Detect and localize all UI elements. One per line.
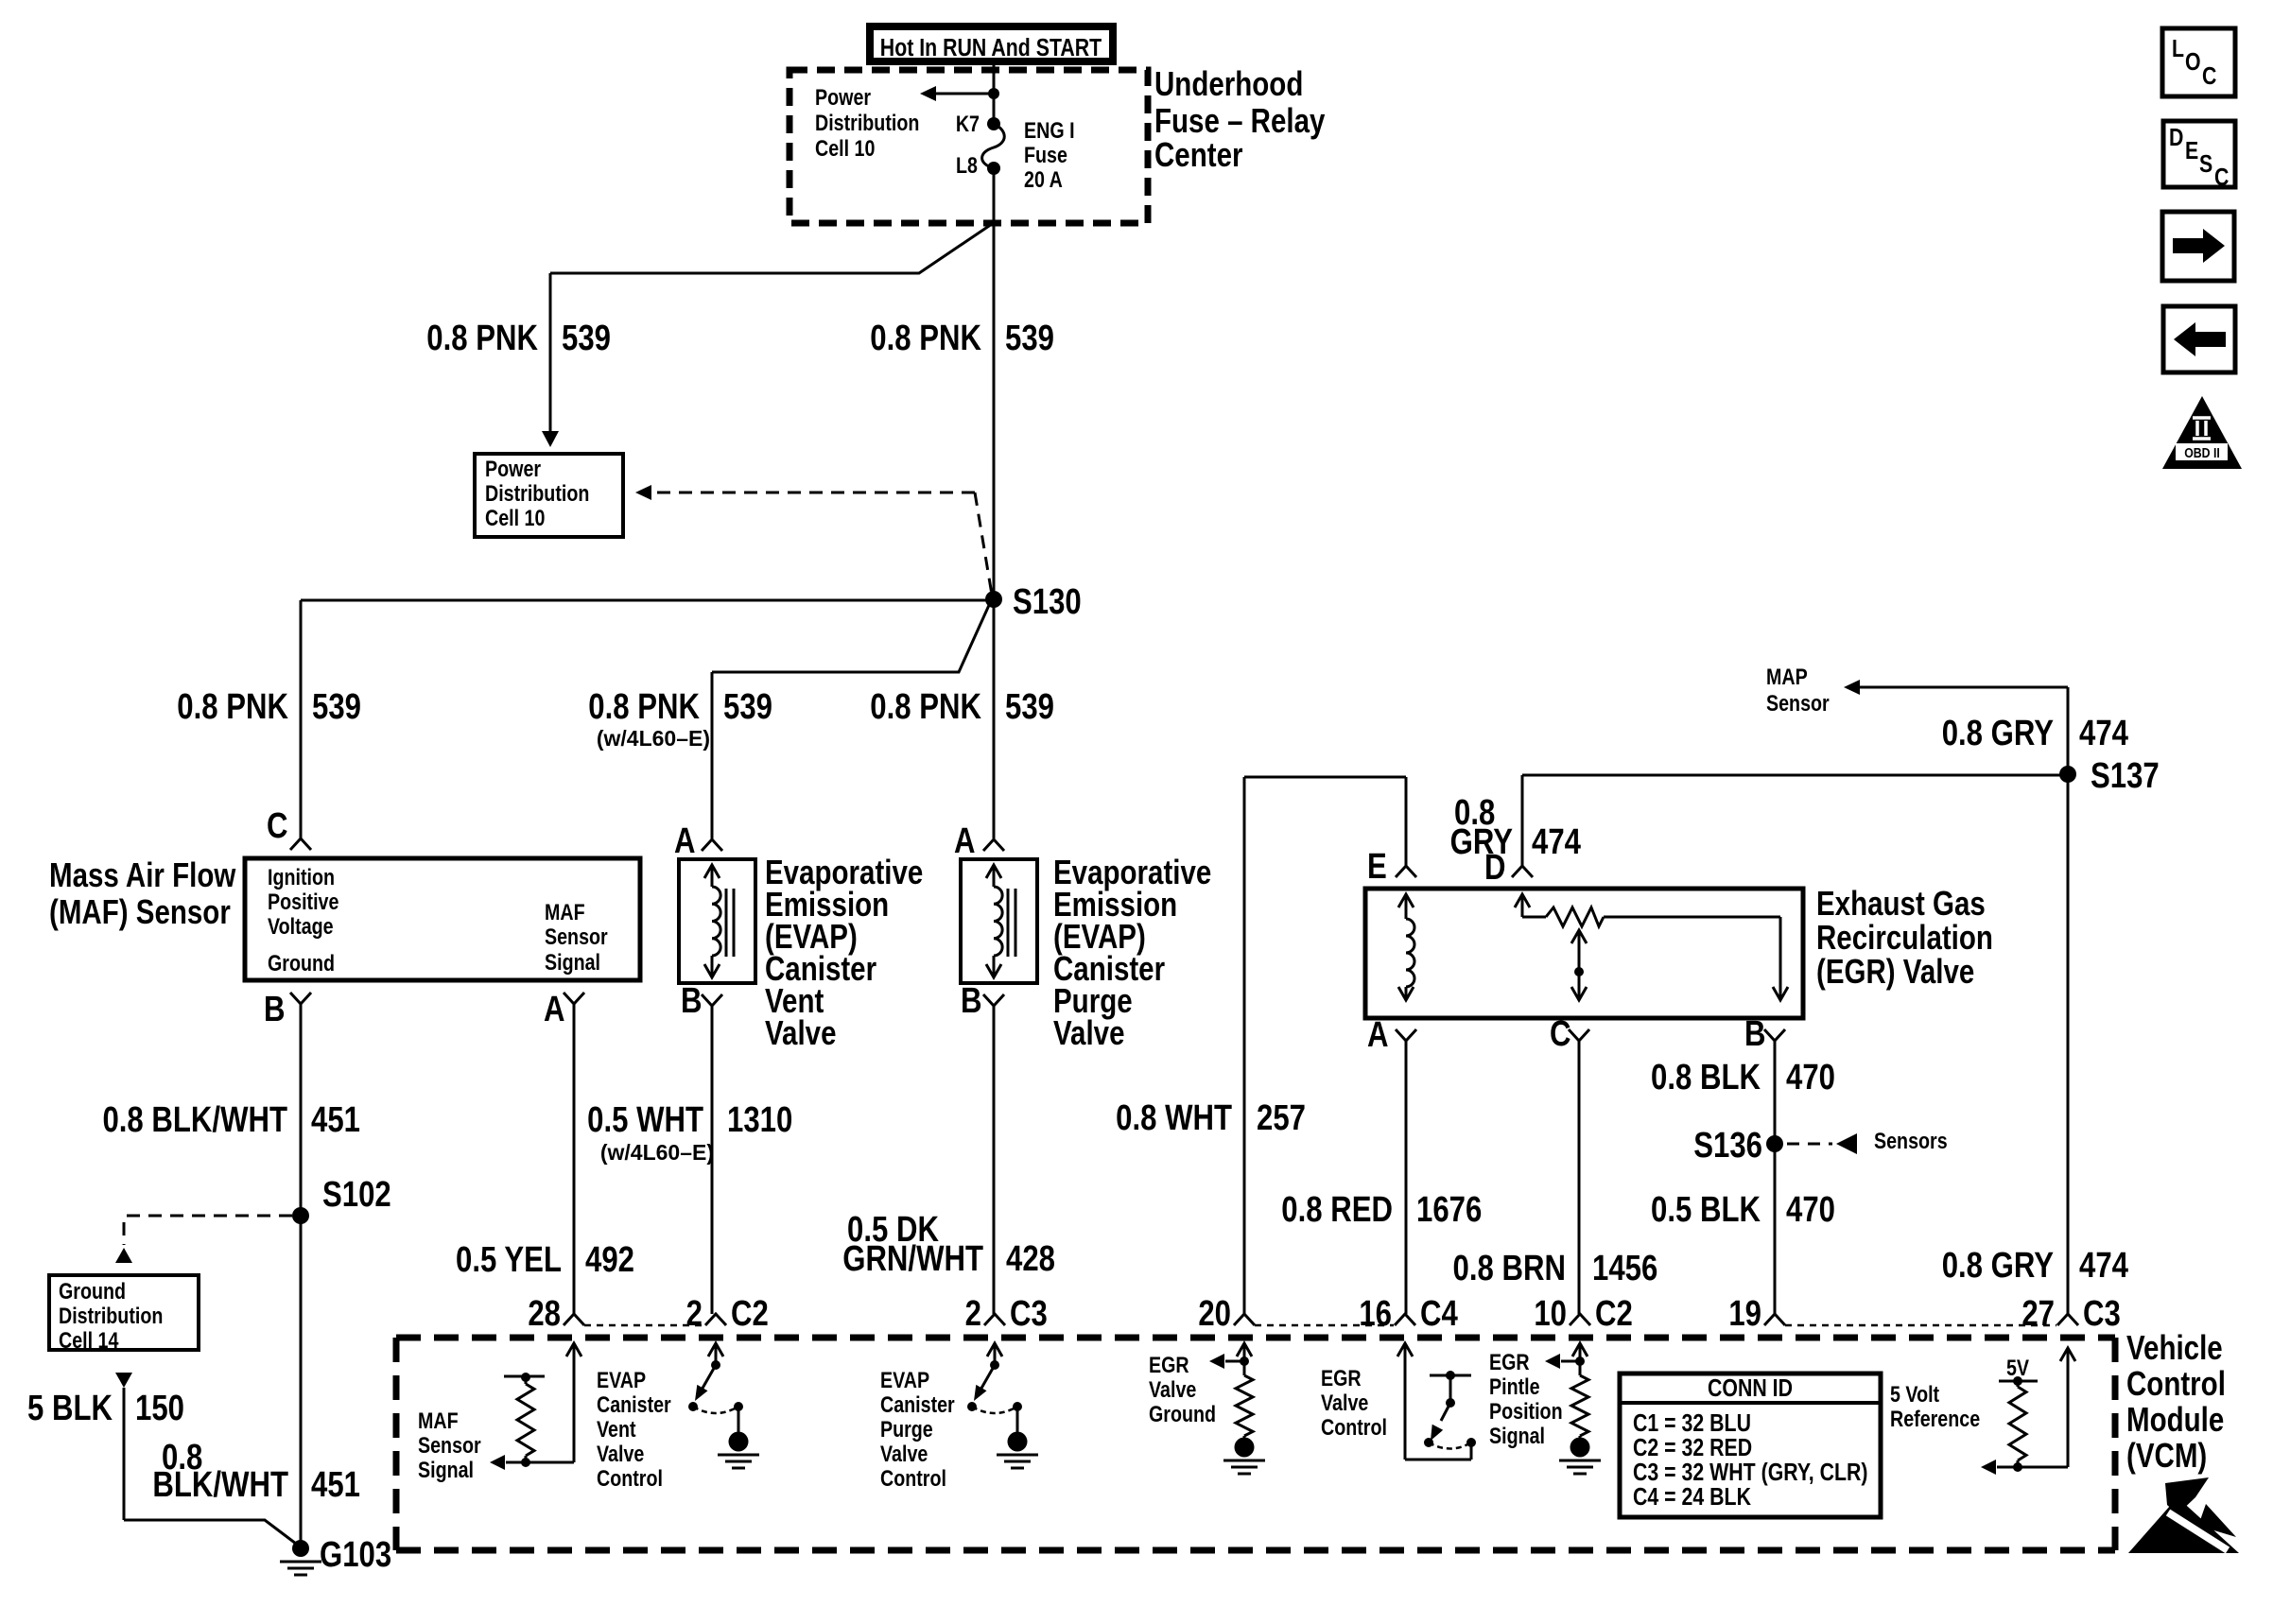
pin E label — [1367, 847, 1387, 887]
svg-text:2: 2 — [686, 1294, 703, 1334]
svg-text:A: A — [544, 990, 565, 1029]
label wire 0.8 PNK 539 (vent) — [588, 687, 772, 751]
svg-text:E: E — [2185, 137, 2198, 165]
svg-text:470: 470 — [1786, 1190, 1835, 1230]
label wire 0.5 WHT 1310 — [587, 1100, 792, 1165]
svg-text:Sensor: Sensor — [1766, 690, 1830, 716]
node G103 ground — [280, 1535, 391, 1575]
VCM internal dashed bus 28-2 — [584, 1324, 704, 1327]
label wire 0.8 BLK/WHT 451 — [102, 1100, 360, 1140]
svg-text:EVAP: EVAP — [597, 1367, 646, 1392]
svg-text:Recirculation: Recirculation — [1816, 918, 1993, 956]
label wire 0.8 PNK 539 (purge) — [870, 687, 1054, 727]
svg-text:2: 2 — [965, 1294, 981, 1334]
svg-text:Exhaust Gas: Exhaust Gas — [1816, 884, 1986, 922]
node S102 — [292, 1175, 391, 1224]
label Underhood Fuse - Relay Center — [1154, 64, 1326, 173]
label Evaporative Emission (EVAP) Canister Vent Valve — [765, 853, 923, 1051]
svg-text:Sensors: Sensors — [1874, 1128, 1948, 1153]
dashed reference arrow to Power Distribution box — [635, 485, 992, 595]
wire S130 to purge valve — [993, 600, 996, 838]
svg-text:5 BLK: 5 BLK — [27, 1389, 113, 1428]
wire diagonal branch below fuse box — [550, 224, 992, 273]
svg-text:EGR: EGR — [1149, 1352, 1189, 1377]
svg-text:474: 474 — [2079, 1246, 2129, 1286]
svg-text:L: L — [2172, 35, 2184, 63]
svg-text:150: 150 — [135, 1389, 184, 1428]
label MAP Sensor — [1766, 664, 1830, 716]
pin B connector (vent) — [702, 994, 722, 1006]
svg-text:(MAF) Sensor: (MAF) Sensor — [49, 892, 231, 930]
node S137 — [2059, 756, 2160, 796]
svg-text:S136: S136 — [1693, 1126, 1762, 1166]
underhood fuse-relay center dashed box — [789, 70, 1148, 223]
svg-text:C: C — [1550, 1014, 1571, 1054]
fuse ENG I 20A — [982, 117, 1005, 175]
label wire 0.5 DK GRN/WHT 428 — [842, 1210, 1055, 1279]
svg-text:Control: Control — [880, 1465, 946, 1491]
label MAF Sensor Signal (in box) — [545, 899, 608, 975]
svg-text:492: 492 — [585, 1240, 634, 1280]
svg-text:Positive: Positive — [268, 889, 338, 914]
wire vent B down — [711, 1006, 714, 1314]
EGR valve box — [1365, 889, 1803, 1018]
svg-text:S102: S102 — [322, 1175, 391, 1215]
svg-text:Cell 10: Cell 10 — [815, 135, 875, 161]
wire EGR A down — [1405, 1041, 1408, 1314]
label wire 0.8 PNK 539 (left top) — [426, 319, 611, 358]
pin A label (purge) — [954, 821, 976, 861]
icon LOC box — [2162, 28, 2235, 96]
svg-text:1310: 1310 — [727, 1100, 792, 1140]
label wire 0.8 GRY 474 (pin 27) — [1942, 1246, 2129, 1286]
label Ignition Positive Voltage / Ground — [268, 864, 338, 976]
pin B connector — [290, 993, 311, 1004]
VCM internal dashed bus 19-27 — [1785, 1324, 2056, 1327]
svg-text:1676: 1676 — [1416, 1190, 1482, 1230]
pin B connector (EGR) — [1764, 1029, 1785, 1041]
svg-text:539: 539 — [723, 687, 772, 727]
svg-text:MAF: MAF — [545, 899, 585, 924]
svg-text:0.8 PNK: 0.8 PNK — [177, 687, 288, 727]
svg-text:Purge: Purge — [880, 1416, 933, 1442]
pin D label — [1484, 848, 1506, 888]
EGR valve control driver — [1321, 1343, 1476, 1460]
svg-text:A: A — [1367, 1015, 1389, 1055]
wire 257 riser — [1244, 777, 1406, 1314]
svg-text:Valve: Valve — [880, 1441, 928, 1466]
svg-text:20: 20 — [1198, 1294, 1231, 1334]
wire D riser to S137 — [1522, 775, 2068, 866]
label wire 0.8 GRY 474 (at D) — [1450, 793, 1582, 862]
svg-text:451: 451 — [311, 1100, 360, 1140]
icon forward arrow box — [2162, 212, 2234, 281]
svg-text:0.8 PNK: 0.8 PNK — [588, 687, 700, 727]
svg-text:C: C — [2214, 164, 2229, 192]
svg-text:Reference: Reference — [1890, 1406, 1980, 1431]
svg-text:EGR: EGR — [1489, 1349, 1530, 1374]
wire arrow to Power Distribution — [920, 86, 994, 101]
svg-text:451: 451 — [311, 1465, 360, 1505]
svg-text:474: 474 — [1532, 822, 1582, 862]
5 volt reference resistor — [1890, 1348, 2075, 1475]
wire from ground cell down — [115, 1373, 300, 1546]
label wire 0.8 PNK 539 (MAF) — [177, 687, 361, 727]
svg-text:Signal: Signal — [418, 1457, 474, 1482]
svg-text:Sensor: Sensor — [545, 924, 608, 949]
label wire 0.5 BLK 470 — [1651, 1190, 1835, 1230]
svg-text:(VCM): (VCM) — [2126, 1436, 2207, 1474]
wire purge B down — [993, 1006, 996, 1314]
label wire 0.8 RED 1676 — [1281, 1190, 1482, 1230]
svg-text:CONN ID: CONN ID — [1708, 1374, 1793, 1403]
svg-text:GRY: GRY — [1450, 822, 1513, 862]
label wire 0.8 WHT 257 — [1116, 1098, 1306, 1138]
EGR pintle position signal resistor — [1489, 1343, 1601, 1474]
wire main feed from Hot box — [993, 61, 996, 123]
pin A connector — [564, 993, 584, 1004]
svg-text:Ground: Ground — [268, 950, 335, 976]
svg-text:B: B — [264, 990, 286, 1029]
svg-text:Signal: Signal — [545, 949, 600, 975]
svg-text:539: 539 — [1005, 687, 1054, 727]
svg-text:Power: Power — [485, 456, 541, 481]
icon OBD II triangle — [2162, 396, 2242, 469]
svg-text:S137: S137 — [2091, 756, 2160, 796]
svg-text:Canister: Canister — [597, 1391, 671, 1417]
svg-text:0.8 GRY: 0.8 GRY — [1942, 714, 2054, 753]
svg-text:Underhood: Underhood — [1154, 64, 1303, 102]
label wire 0.8 PNK 539 (center top) — [870, 319, 1054, 358]
svg-text:Valve: Valve — [765, 1013, 836, 1051]
svg-text:L8: L8 — [956, 152, 978, 178]
label box Hot In RUN And START — [870, 26, 1113, 62]
svg-text:EVAP: EVAP — [880, 1367, 929, 1392]
label K7 — [956, 111, 980, 136]
ground distribution cell 14 box — [49, 1275, 199, 1353]
VCM pin 20 — [1198, 1294, 1255, 1334]
svg-text:257: 257 — [1257, 1098, 1306, 1138]
svg-text:D: D — [2169, 124, 2183, 152]
EGR valve ground resistor — [1149, 1343, 1265, 1474]
EVAP canister purge valve box — [961, 859, 1037, 983]
label wire 0.8 BLK 470 — [1651, 1058, 1835, 1097]
svg-text:GRN/WHT: GRN/WHT — [842, 1239, 983, 1279]
svg-text:20 A: 20 A — [1024, 166, 1063, 192]
label Power Distribution Cell 10 (underhood) — [815, 84, 919, 161]
svg-text:B: B — [1744, 1014, 1766, 1054]
VCM pin 10 C2 — [1534, 1294, 1632, 1334]
label wire 0.8 GRY 474 (S137) — [1942, 714, 2129, 753]
pin B label — [264, 990, 286, 1029]
pin B label (purge) — [961, 981, 982, 1021]
svg-text:0.5 YEL: 0.5 YEL — [456, 1240, 562, 1280]
pin C label (EGR) — [1550, 1014, 1571, 1054]
pin B label (EGR) — [1744, 1014, 1766, 1054]
EGR pintle wiper — [1571, 930, 1587, 1000]
wire fuse to S130 — [993, 168, 996, 600]
svg-text:0.8 BLK/WHT: 0.8 BLK/WHT — [102, 1100, 287, 1140]
VCM dashed border — [396, 1338, 2115, 1550]
svg-text:539: 539 — [562, 319, 611, 358]
svg-text:Distribution: Distribution — [815, 110, 919, 135]
svg-text:27: 27 — [2021, 1294, 2055, 1334]
label L8 — [956, 152, 978, 178]
dashed sensors reference — [1787, 1128, 1948, 1154]
wire MAF A down — [573, 1004, 576, 1314]
pin C label — [267, 806, 288, 846]
pin A label — [544, 990, 565, 1029]
svg-text:BLK/WHT: BLK/WHT — [152, 1465, 288, 1505]
pin A label (vent) — [674, 821, 696, 861]
svg-text:Cell 14: Cell 14 — [59, 1327, 119, 1353]
svg-text:28: 28 — [528, 1294, 561, 1334]
wire MAF B down — [300, 1004, 303, 1548]
pin B connector (purge) — [983, 994, 1004, 1006]
svg-text:539: 539 — [1005, 319, 1054, 358]
svg-text:C: C — [2202, 62, 2216, 91]
svg-text:B: B — [681, 981, 703, 1021]
VCM pin 2 C3 — [965, 1294, 1048, 1334]
svg-text:Ignition: Ignition — [268, 864, 335, 890]
VCM pin 28 — [528, 1294, 584, 1334]
label wire 0.5 YEL 492 — [456, 1240, 634, 1280]
VCM pin 2 C2 — [686, 1294, 769, 1334]
svg-text:0.8 BRN: 0.8 BRN — [1453, 1249, 1566, 1288]
svg-text:0.8 RED: 0.8 RED — [1281, 1190, 1393, 1230]
wire EGR C down — [1578, 1041, 1581, 1314]
svg-text:K7: K7 — [956, 111, 980, 136]
label Mass Air Flow (MAF) Sensor — [49, 855, 236, 930]
svg-text:Valve: Valve — [597, 1441, 644, 1466]
pin E connector — [1396, 866, 1416, 877]
EGR potentiometer — [1515, 894, 1788, 1000]
svg-text:Control: Control — [1321, 1414, 1387, 1440]
svg-text:ENG I: ENG I — [1024, 117, 1075, 143]
EVAP canister vent valve box — [679, 859, 755, 983]
svg-text:Valve: Valve — [1149, 1376, 1196, 1402]
svg-text:Center: Center — [1154, 135, 1243, 173]
svg-text:O: O — [2185, 48, 2201, 77]
svg-text:A: A — [674, 821, 696, 861]
svg-text:Canister: Canister — [880, 1391, 955, 1417]
label ENG I Fuse 20 A — [1024, 117, 1075, 192]
node S136 — [1693, 1126, 1783, 1166]
svg-text:0.8 PNK: 0.8 PNK — [870, 687, 981, 727]
svg-text:(w/4L60–E): (w/4L60–E) — [597, 726, 710, 751]
svg-text:OBD II: OBD II — [2184, 445, 2220, 460]
purge valve solenoid coil — [986, 865, 1015, 977]
svg-text:Sensor: Sensor — [418, 1432, 481, 1458]
svg-text:Position: Position — [1489, 1398, 1563, 1424]
svg-text:Vehicle: Vehicle — [2126, 1328, 2223, 1366]
pin A connector (purge) — [983, 839, 1004, 851]
label Exhaust Gas Recirculation (EGR) Valve — [1816, 884, 1993, 990]
wire S130 to vent valve branch — [712, 603, 990, 838]
svg-text:0.8 PNK: 0.8 PNK — [870, 319, 981, 358]
svg-text:428: 428 — [1006, 1239, 1055, 1279]
svg-text:474: 474 — [2079, 714, 2129, 753]
svg-text:Module: Module — [2126, 1400, 2224, 1438]
svg-text:470: 470 — [1786, 1058, 1835, 1097]
svg-text:Control: Control — [597, 1465, 663, 1491]
label wire 5 BLK 150 — [27, 1389, 184, 1428]
svg-text:539: 539 — [312, 687, 361, 727]
pin B label (vent) — [681, 981, 703, 1021]
svg-text:0.5 WHT: 0.5 WHT — [587, 1100, 703, 1140]
svg-text:0.8 BLK: 0.8 BLK — [1651, 1058, 1761, 1097]
svg-text:A: A — [954, 821, 976, 861]
svg-text:Valve: Valve — [1053, 1013, 1124, 1051]
CONN ID table — [1620, 1373, 1881, 1517]
svg-text:10: 10 — [1534, 1294, 1567, 1334]
svg-text:Fuse: Fuse — [1024, 142, 1067, 167]
svg-text:0.8 WHT: 0.8 WHT — [1116, 1098, 1232, 1138]
VCM pin 19 — [1728, 1294, 1785, 1334]
power distribution cell 10 box — [475, 454, 623, 537]
svg-text:Signal: Signal — [1489, 1423, 1545, 1448]
svg-text:Distribution: Distribution — [485, 480, 589, 506]
node junction at K7 feed — [988, 88, 999, 99]
svg-text:Fuse – Relay: Fuse – Relay — [1154, 101, 1326, 139]
svg-text:Hot In RUN And START: Hot In RUN And START — [880, 34, 1102, 62]
svg-text:Mass Air Flow: Mass Air Flow — [49, 855, 236, 893]
pin C connector — [290, 838, 311, 850]
svg-text:19: 19 — [1728, 1294, 1761, 1334]
svg-text:0.8 GRY: 0.8 GRY — [1942, 1246, 2054, 1286]
pin A label (EGR) — [1367, 1015, 1389, 1055]
svg-text:Power: Power — [815, 84, 871, 110]
label Vehicle Control Module (VCM) — [2126, 1328, 2226, 1474]
svg-text:Voltage: Voltage — [268, 913, 334, 939]
wire left PNK drop with arrow — [542, 273, 559, 447]
VCM internal dashed bus 20-16 — [1255, 1324, 1394, 1327]
svg-text:EGR: EGR — [1321, 1365, 1362, 1391]
svg-text:Ground: Ground — [59, 1278, 126, 1304]
vent valve solenoid coil — [704, 865, 734, 977]
label wire 0.8 BLK/WHT 451 (lower) — [152, 1438, 360, 1505]
icon back arrow box — [2163, 306, 2235, 372]
pin A connector (EGR) — [1396, 1029, 1416, 1041]
svg-text:C2: C2 — [731, 1294, 769, 1334]
svg-text:Control: Control — [2126, 1364, 2226, 1402]
svg-text:(EGR) Valve: (EGR) Valve — [1816, 952, 1974, 990]
pin A connector (vent) — [702, 839, 722, 851]
EVAP vent valve control driver — [597, 1343, 759, 1491]
svg-text:B: B — [961, 981, 982, 1021]
svg-text:0.8 PNK: 0.8 PNK — [426, 319, 538, 358]
svg-text:C4: C4 — [1420, 1294, 1458, 1334]
ESD warning symbol — [2128, 1477, 2239, 1553]
MAF sensor signal resistor — [418, 1343, 581, 1482]
svg-text:E: E — [1367, 847, 1387, 887]
svg-text:C4 = 24 BLK: C4 = 24 BLK — [1633, 1483, 1751, 1512]
wire S130 to MAF branch — [301, 599, 994, 602]
node S130 — [985, 582, 1082, 622]
svg-text:S: S — [2199, 150, 2212, 179]
dashed wire S102 to ground cell — [115, 1216, 292, 1263]
svg-text:Distribution: Distribution — [59, 1303, 163, 1328]
svg-text:G103: G103 — [320, 1535, 391, 1575]
svg-text:Cell 10: Cell 10 — [485, 505, 545, 530]
EGR solenoid coil — [1398, 894, 1414, 1000]
svg-text:1456: 1456 — [1592, 1249, 1657, 1288]
svg-text:Ground: Ground — [1149, 1401, 1216, 1426]
wire MAF drop to pin C — [300, 600, 303, 838]
wire EGR B down — [1774, 1041, 1777, 1314]
svg-text:C3: C3 — [2083, 1294, 2121, 1334]
pin D connector — [1512, 866, 1533, 877]
EVAP purge valve control driver — [880, 1343, 1038, 1491]
label Evaporative Emission (EVAP) Canister Purge Valve — [1053, 853, 1211, 1051]
svg-text:0.5 BLK: 0.5 BLK — [1651, 1190, 1761, 1230]
wire MAP arrow — [1844, 680, 2068, 1314]
pin C connector (EGR) — [1569, 1029, 1589, 1041]
svg-text:Vent: Vent — [597, 1416, 636, 1442]
svg-text:Pintle: Pintle — [1489, 1373, 1540, 1399]
icon DESC box — [2163, 121, 2235, 192]
VCM pin 16 C4 — [1359, 1294, 1458, 1334]
svg-text:MAF: MAF — [418, 1408, 459, 1433]
svg-text:C2: C2 — [1595, 1294, 1633, 1334]
svg-text:5 Volt: 5 Volt — [1890, 1381, 1940, 1407]
svg-text:Valve: Valve — [1321, 1390, 1368, 1415]
svg-text:(w/4L60–E): (w/4L60–E) — [600, 1140, 714, 1165]
svg-text:C3: C3 — [1010, 1294, 1048, 1334]
svg-text:16: 16 — [1359, 1294, 1392, 1334]
svg-text:MAP: MAP — [1766, 664, 1808, 689]
label wire 0.8 BRN 1456 — [1453, 1249, 1658, 1288]
MAF sensor box — [245, 858, 640, 980]
svg-text:C: C — [267, 806, 288, 846]
svg-text:S130: S130 — [1013, 582, 1082, 622]
VCM pin 27 C3 — [2021, 1294, 2120, 1334]
